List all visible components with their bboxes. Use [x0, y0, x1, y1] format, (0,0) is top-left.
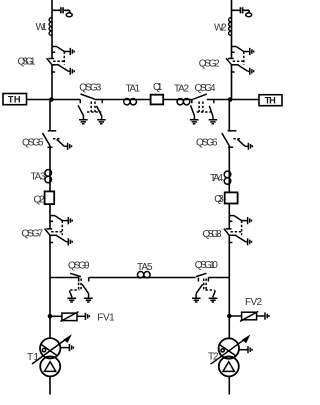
svg-text:QSG5: QSG5: [22, 137, 44, 148]
svg-text:FV2: FV2: [245, 297, 262, 308]
svg-text:QSG2: QSG2: [199, 58, 220, 69]
svg-text:T2: T2: [208, 351, 219, 362]
svg-text:T1: T1: [27, 352, 39, 363]
svg-text:QSG9: QSG9: [68, 261, 90, 272]
svg-text:TA3: TA3: [31, 172, 46, 183]
svg-text:TA5: TA5: [137, 262, 153, 273]
svg-text:QSG7: QSG7: [22, 228, 44, 239]
svg-text:QSG10: QSG10: [195, 260, 218, 271]
svg-text:Q1: Q1: [153, 82, 163, 93]
svg-text:TH: TH: [8, 94, 21, 104]
svg-text:QSG6: QSG6: [196, 138, 218, 149]
svg-text:TA4: TA4: [210, 173, 223, 184]
svg-text:Q2: Q2: [34, 195, 45, 206]
svg-text:Q3: Q3: [214, 194, 224, 205]
svg-text:W2: W2: [214, 22, 227, 33]
svg-text:TA1: TA1: [126, 83, 141, 94]
svg-text:TH: TH: [265, 95, 276, 105]
svg-text:QSG8: QSG8: [203, 229, 222, 240]
svg-text:W1: W1: [36, 22, 48, 33]
svg-text:QSG4: QSG4: [195, 83, 216, 94]
svg-text:QSG3: QSG3: [79, 82, 101, 93]
svg-text:QSG1: QSG1: [18, 56, 36, 67]
svg-text:FV1: FV1: [97, 312, 115, 323]
svg-text:TA2: TA2: [174, 84, 189, 95]
